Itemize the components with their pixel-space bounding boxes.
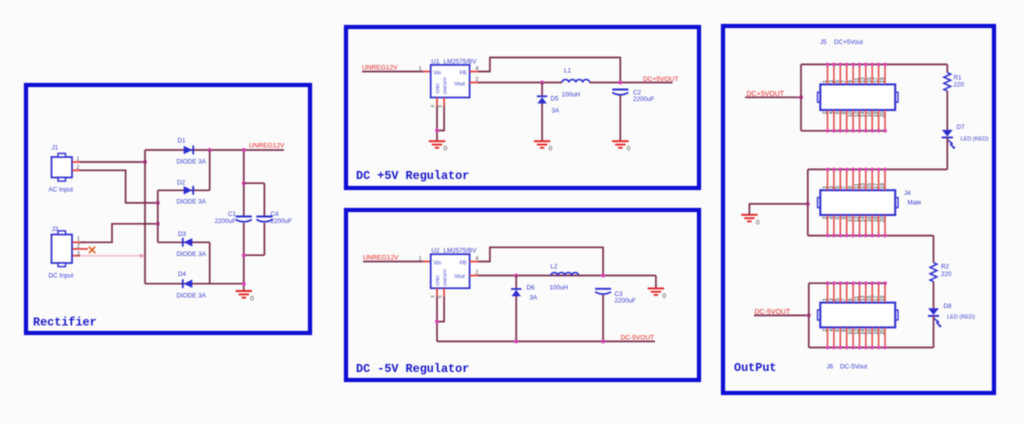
wire top rail D1 row: [145, 149, 284, 151]
svg-text:13: 13: [861, 295, 867, 301]
section box: OutPut: [723, 26, 994, 393]
wire U2 pin3 down to rail: [436, 297, 438, 342]
svg-text:1: 1: [77, 237, 80, 243]
svg-text:DC+5VOUT: DC+5VOUT: [643, 76, 678, 83]
svg-text:17: 17: [874, 77, 880, 83]
svg-text:Vout: Vout: [454, 82, 465, 88]
svg-text:2200uF: 2200uF: [615, 297, 637, 304]
svg-text:0: 0: [627, 146, 631, 153]
svg-text:UNREG12V: UNREG12V: [249, 143, 285, 150]
svg-text:0: 0: [662, 293, 666, 300]
svg-text:5: 5: [835, 80, 841, 83]
wire J4 bottom bus: [808, 235, 934, 237]
junction D6 bottom: [514, 339, 518, 343]
pin 1 stub of U2: [423, 261, 431, 263]
connector J6 body: [818, 303, 899, 328]
svg-text:D3: D3: [178, 231, 187, 238]
wire bottom rail of -5V: [437, 340, 655, 342]
svg-text:2200uF: 2200uF: [633, 96, 655, 103]
svg-text:9: 9: [848, 80, 854, 83]
wire J1 pin2 staircase: [80, 170, 158, 203]
svg-text:1: 1: [822, 186, 828, 189]
svg-text:5: 5: [835, 186, 841, 189]
svg-text:10: 10: [848, 111, 854, 117]
svg-text:18: 18: [874, 329, 880, 335]
wire mid vertical D2-D3: [157, 190, 159, 242]
ground of D5: [534, 141, 553, 153]
wire D3 row: [158, 241, 210, 243]
svg-text:9: 9: [848, 186, 854, 189]
svg-text:0: 0: [250, 296, 254, 303]
svg-text:16: 16: [867, 111, 873, 117]
svg-text:J5: J5: [820, 39, 827, 46]
svg-text:12: 12: [854, 111, 860, 117]
inductor L1: [562, 80, 590, 83]
svg-text:ON/OFF: ON/OFF: [443, 269, 448, 287]
svg-text:16: 16: [867, 329, 873, 335]
svg-text:R1: R1: [954, 74, 963, 81]
svg-text:5: 5: [835, 298, 841, 301]
svg-text:13: 13: [861, 77, 867, 83]
wire D7 to J4 top bus: [946, 138, 948, 170]
svg-text:100uH: 100uH: [550, 284, 569, 291]
wire Vout row of -5V: [478, 275, 656, 277]
svg-text:AC Input: AC Input: [49, 187, 74, 194]
svg-text:GND: GND: [435, 83, 440, 94]
svg-text:LED (RED): LED (RED): [947, 314, 975, 320]
svg-text:5: 5: [437, 105, 442, 108]
svg-text:12: 12: [854, 329, 860, 335]
svg-text:6: 6: [835, 216, 841, 219]
ground of U1: [429, 141, 448, 153]
pin 3 stub of U1 GND: [436, 98, 438, 107]
svg-text:19: 19: [880, 183, 886, 189]
svg-text:2200uF: 2200uF: [271, 218, 293, 225]
wire vertical D1-D2 cathodes: [209, 150, 211, 190]
svg-text:DIODE 3A: DIODE 3A: [177, 159, 207, 166]
no-connect X on J3 pin 2: [89, 247, 95, 253]
svg-text:J6: J6: [827, 364, 834, 371]
wire J5 bottom bus: [801, 130, 887, 132]
junction staircase lower: [156, 222, 160, 226]
svg-text:8: 8: [842, 216, 848, 219]
svg-text:3: 3: [430, 295, 435, 298]
svg-text:14: 14: [861, 329, 867, 335]
svg-text:15: 15: [867, 77, 873, 83]
svg-text:D2: D2: [177, 179, 186, 186]
wire R1 to D7: [946, 91, 948, 130]
svg-text:DC+5Vout: DC+5Vout: [834, 39, 863, 46]
capacitor C2: [612, 90, 628, 95]
junction D4 row to ground column: [242, 282, 246, 286]
pin 5 stub of U2 ON/OFF: [443, 288, 445, 296]
svg-text:3A: 3A: [552, 107, 561, 114]
LED D7: [942, 130, 956, 149]
svg-text:0: 0: [756, 219, 760, 226]
wire ground to J4 left vertical: [749, 204, 807, 215]
svg-text:DC Input: DC Input: [49, 273, 74, 280]
svg-text:100uH: 100uH: [562, 91, 581, 98]
resistor R2: [930, 263, 937, 282]
svg-text:4: 4: [829, 111, 835, 114]
svg-text:DIODE 3A: DIODE 3A: [177, 293, 207, 300]
wire C4 vertical bottom: [263, 223, 265, 255]
svg-text:7: 7: [842, 186, 848, 189]
wire J5 bus to R1: [946, 64, 948, 72]
svg-text:6: 6: [835, 111, 841, 114]
svg-text:14: 14: [861, 216, 867, 222]
wire C3 to bottom rail: [602, 295, 604, 342]
wire DC-5VOUT to J6: [754, 314, 809, 316]
svg-text:Vin: Vin: [434, 260, 442, 266]
svg-text:2: 2: [77, 165, 80, 171]
regulator U1 body: [431, 65, 470, 98]
wire U1 pin3 to ground: [436, 106, 438, 141]
wire D6 to bottom rail: [515, 296, 517, 341]
diode D6: [511, 289, 521, 296]
wire C2 to ground: [619, 96, 621, 142]
svg-text:L2: L2: [551, 263, 559, 270]
junction D1 cathode column: [208, 148, 212, 152]
wire D5 anode drop: [541, 83, 543, 97]
svg-text:2: 2: [822, 329, 828, 332]
wire J6 left vertical: [808, 283, 810, 347]
capacitor C1: [236, 217, 252, 222]
svg-text:Vin: Vin: [434, 70, 442, 76]
pin 2 stub of U1 Vout: [470, 82, 478, 84]
svg-text:14: 14: [861, 111, 867, 117]
svg-text:18: 18: [874, 216, 880, 222]
wire J3 pin1 staircase: [80, 224, 158, 243]
svg-text:6: 6: [835, 329, 841, 332]
junction J6 left vertical: [807, 313, 811, 317]
svg-text:U2: U2: [431, 248, 440, 255]
svg-text:3: 3: [829, 186, 835, 189]
connector J6 pins and pin numbers: [826, 281, 887, 349]
svg-text:D8: D8: [944, 303, 953, 310]
pin 2 stub of U2 Vout: [470, 275, 478, 277]
junction pin3-pin5 loop: [435, 129, 439, 133]
diode D1: [184, 146, 194, 155]
svg-text:2200uF: 2200uF: [215, 218, 237, 225]
svg-text:J3: J3: [52, 226, 59, 233]
svg-text:DIODE 3A: DIODE 3A: [177, 251, 207, 258]
wire FB feedback loop of U2: [478, 247, 603, 275]
svg-text:DC +5V Regulator: DC +5V Regulator: [356, 169, 469, 183]
svg-text:15: 15: [867, 183, 873, 189]
wire D6 top drop: [515, 276, 517, 290]
connector J5 body: [818, 84, 899, 110]
diode D5: [537, 96, 547, 103]
section box: DC -5V Regulator: [346, 210, 699, 380]
connector J3: [52, 231, 73, 267]
section box: DC +5V Regulator: [346, 27, 699, 188]
capacitor C4: [256, 217, 272, 222]
svg-text:20: 20: [880, 216, 886, 222]
svg-text:1: 1: [419, 256, 422, 262]
svg-text:J4: J4: [904, 190, 911, 197]
svg-text:J1: J1: [52, 145, 59, 152]
LED D8: [928, 308, 942, 327]
svg-text:L1: L1: [564, 67, 572, 74]
diode D3: [183, 238, 193, 247]
svg-text:LM2575/BV: LM2575/BV: [444, 58, 478, 65]
svg-text:16: 16: [867, 216, 873, 222]
faint unconnected wire from J3 pin 3: [80, 253, 145, 258]
wire J1 pin1 to bridge vertical: [80, 161, 146, 163]
junction J4 left vertical: [806, 202, 810, 206]
svg-text:10: 10: [848, 216, 854, 222]
wire J5 left vertical: [800, 64, 802, 130]
svg-text:D5: D5: [551, 95, 560, 102]
wire FB feedback loop of U1: [478, 58, 620, 83]
junction C2 and FB: [618, 81, 622, 85]
svg-text:4: 4: [829, 216, 835, 219]
wire D8 to J6 bottom bus: [933, 316, 935, 348]
inductor L2: [551, 273, 579, 276]
svg-text:1: 1: [77, 157, 80, 163]
wire capacitor column C1: [243, 150, 245, 217]
svg-text:D4: D4: [178, 271, 187, 278]
svg-text:1: 1: [822, 298, 828, 301]
svg-text:DC -5V Regulator: DC -5V Regulator: [356, 362, 469, 376]
svg-text:17: 17: [874, 183, 880, 189]
svg-text:220: 220: [954, 81, 965, 88]
wire L1 to output: [590, 82, 673, 84]
pin 1 of J3: [73, 241, 87, 243]
section box: Rectifier: [26, 85, 310, 333]
svg-text:Male: Male: [908, 200, 922, 207]
wire J6 bottom bus: [809, 347, 934, 349]
svg-text:UNREG12V: UNREG12V: [362, 65, 398, 72]
ground of -5V output row: [648, 288, 667, 300]
svg-text:17: 17: [874, 295, 880, 301]
pin 4 stub of U1 FB: [470, 71, 478, 73]
junction J5 left vertical: [799, 95, 803, 99]
svg-text:Rectifier: Rectifier: [33, 316, 97, 330]
svg-text:13: 13: [861, 183, 867, 189]
svg-text:4: 4: [829, 329, 835, 332]
svg-text:ON/OFF: ON/OFF: [443, 77, 448, 95]
wire R2 to D8: [933, 282, 935, 309]
diode D2: [184, 186, 194, 195]
connector J4 body: [818, 190, 899, 215]
svg-text:2: 2: [822, 216, 828, 219]
wire DC+5VOUT to J5: [745, 96, 801, 98]
wire J5 top bus: [801, 63, 947, 65]
pin 2 of J1: [72, 169, 80, 171]
svg-text:2: 2: [77, 244, 80, 250]
svg-text:LED (RED): LED (RED): [961, 136, 989, 142]
svg-text:FB: FB: [460, 70, 467, 76]
ground of C2: [612, 141, 631, 153]
capacitor C3: [595, 289, 611, 294]
junction U2 pin loop: [435, 320, 439, 324]
wire D5 to ground: [541, 104, 543, 142]
svg-text:3: 3: [829, 298, 835, 301]
svg-text:5: 5: [437, 295, 442, 298]
connector J1: [52, 153, 73, 181]
pin 3 of J3: [73, 255, 81, 257]
junction C3 and FB of -5V: [601, 274, 605, 278]
svg-text:UNREG12V: UNREG12V: [363, 255, 399, 262]
pin 1 of J1: [72, 161, 80, 163]
junction staircase upper: [156, 201, 160, 205]
svg-text:DC-5Vout: DC-5Vout: [840, 364, 868, 371]
wire J4 bus to R2: [933, 236, 935, 263]
svg-text:U1: U1: [431, 58, 440, 65]
svg-text:11: 11: [854, 183, 860, 188]
svg-text:LM2575/BV: LM2575/BV: [444, 248, 478, 255]
pin 2 of J3: [73, 248, 89, 250]
svg-text:D7: D7: [957, 124, 966, 131]
svg-text:7: 7: [842, 80, 848, 83]
wire J6 top bus: [809, 282, 887, 284]
connector J5 pins and pin numbers: [826, 63, 887, 133]
junction at bridge vertical and J1 pin1: [143, 160, 147, 164]
junction C3 bottom: [601, 339, 605, 343]
regulator U2 body: [431, 254, 470, 288]
junction catch diode D6: [514, 274, 518, 278]
svg-text:11: 11: [854, 296, 860, 301]
svg-text:2: 2: [822, 111, 828, 114]
svg-text:220: 220: [941, 271, 952, 278]
wire C4 vertical top: [263, 183, 265, 216]
svg-text:DC-5VOUT: DC-5VOUT: [621, 334, 655, 341]
wire C1 bottom to ground rail: [243, 223, 245, 291]
svg-text:OutPut: OutPut: [734, 361, 776, 375]
svg-text:R2: R2: [941, 263, 950, 270]
svg-text:11: 11: [854, 77, 860, 82]
svg-text:3: 3: [430, 105, 435, 108]
junction C4 branch top: [242, 181, 246, 185]
resistor R1: [944, 73, 951, 91]
svg-text:10: 10: [848, 329, 854, 335]
svg-text:8: 8: [842, 111, 848, 114]
svg-text:1: 1: [822, 80, 828, 83]
junction C4 branch bottom: [242, 253, 246, 257]
wire output row to ground corner: [655, 276, 657, 289]
svg-text:D1: D1: [178, 138, 187, 145]
svg-text:19: 19: [880, 77, 886, 83]
svg-text:0: 0: [444, 146, 448, 153]
svg-text:9: 9: [848, 298, 854, 301]
svg-text:8: 8: [842, 329, 848, 332]
svg-text:12: 12: [854, 216, 860, 222]
svg-text:7: 7: [842, 298, 848, 301]
svg-text:FB: FB: [460, 260, 467, 266]
wire U2 pin5 loop: [437, 297, 444, 322]
connector J4 pins and pin numbers: [826, 168, 887, 238]
svg-text:19: 19: [880, 295, 886, 301]
svg-text:Vout: Vout: [454, 274, 465, 280]
svg-text:3: 3: [77, 251, 80, 257]
wire D4 row: [145, 283, 244, 285]
svg-text:GND: GND: [435, 275, 440, 286]
svg-text:1: 1: [419, 66, 422, 72]
svg-text:3A: 3A: [530, 294, 539, 301]
svg-text:20: 20: [880, 111, 886, 117]
svg-text:15: 15: [867, 295, 873, 301]
wire J4 top bus: [808, 168, 948, 170]
svg-text:0: 0: [549, 146, 553, 153]
pin 5 stub of U1 ON/OFF: [443, 98, 445, 107]
svg-text:D6: D6: [527, 285, 536, 292]
wire vertical D3-D4: [209, 242, 211, 283]
junction top rail to cap column: [242, 148, 246, 152]
diode D4: [183, 279, 193, 288]
ground of J4: [741, 215, 760, 227]
wire J4 left vertical: [807, 169, 809, 235]
wire U1 pin5 loop: [437, 106, 444, 131]
wire UNREG12V to U1 Vin: [362, 71, 423, 73]
svg-text:20: 20: [880, 329, 886, 335]
pin 3 stub of U2 GND: [436, 288, 438, 296]
wire bridge main vertical: [144, 150, 146, 284]
wire C4 branch bottom: [244, 254, 265, 256]
wire C4 branch top: [244, 182, 265, 184]
svg-text:18: 18: [874, 111, 880, 117]
ground of rectifier: [236, 291, 255, 303]
pin 4 stub of U2 FB: [470, 261, 478, 263]
svg-text:3: 3: [829, 80, 835, 83]
pin 1 stub of U1: [423, 71, 431, 73]
wire D2 row: [158, 189, 210, 191]
wire Vout row of +5V: [478, 82, 562, 84]
junction catch diode D5: [540, 81, 544, 85]
wire UNREG12V to U2 Vin: [363, 261, 423, 263]
svg-text:DIODE 3A: DIODE 3A: [177, 199, 207, 206]
